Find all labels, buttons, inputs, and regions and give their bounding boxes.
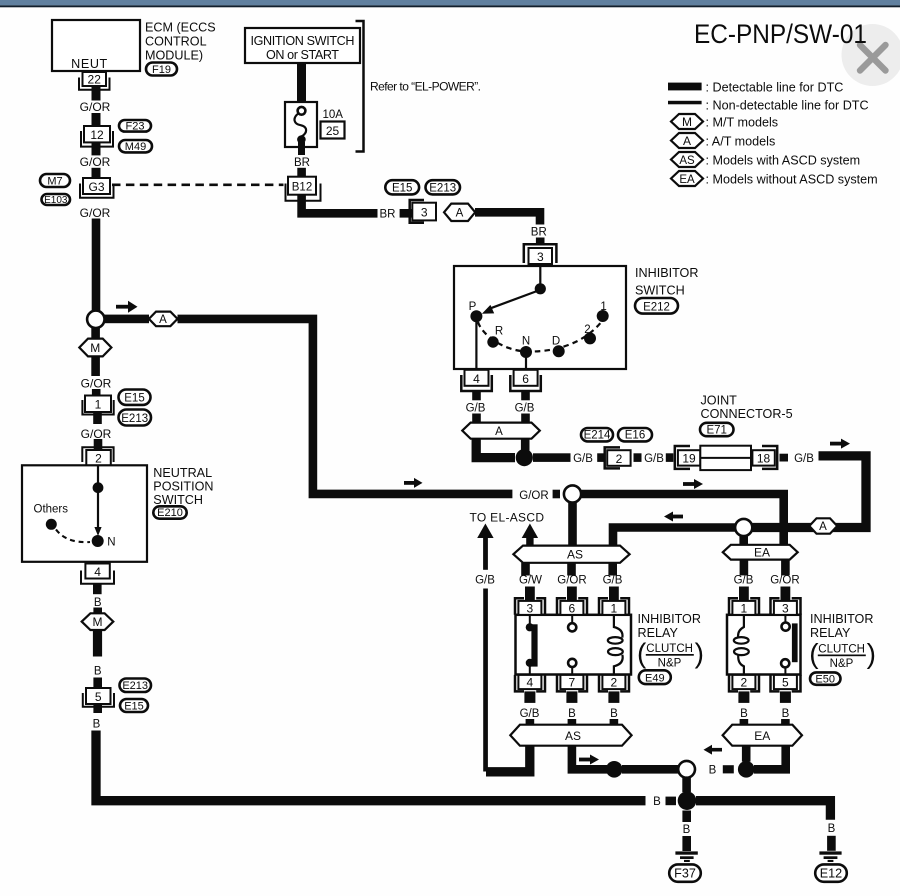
svg-text:BR: BR — [294, 157, 310, 169]
wire label G/OR — [81, 427, 112, 441]
wire EA lower-right down then left into dot — [754, 746, 786, 770]
junction dot G/B — [516, 449, 533, 466]
left relay contact switch — [526, 615, 538, 675]
right relay pin 1 — [729, 598, 759, 615]
svg-text:10A: 10A — [323, 109, 344, 121]
svg-text:NEUTRAL: NEUTRAL — [153, 466, 212, 480]
legend: EA hexagon — [671, 171, 878, 186]
svg-text:12: 12 — [90, 128, 104, 142]
left relay box E49 — [516, 615, 632, 675]
switch pin connector 6 — [510, 370, 541, 401]
legend: detectable line swatch — [668, 80, 843, 94]
svg-text:1: 1 — [741, 601, 748, 615]
svg-text:3: 3 — [537, 250, 544, 264]
wire node to A hexagon — [105, 315, 150, 324]
fuse 10A box — [285, 102, 317, 155]
wire N to pin 6 — [525, 356, 527, 370]
svg-text:A: A — [819, 521, 827, 533]
svg-text:EC-PNP/SW-01: EC-PNP/SW-01 — [694, 19, 867, 49]
svg-text:INHIBITOR: INHIBITOR — [638, 612, 701, 626]
svg-text:18: 18 — [757, 452, 771, 466]
wire ignition to fuse — [297, 63, 306, 103]
svg-text:ON or START: ON or START — [266, 48, 339, 62]
svg-text:6: 6 — [522, 372, 529, 386]
svg-text:N&P: N&P — [830, 658, 854, 670]
wire label BR — [294, 157, 310, 169]
switch position N — [520, 335, 532, 358]
svg-text:AS: AS — [565, 729, 581, 743]
AS bottom stubs — [521, 563, 617, 576]
flow arrow left — [664, 512, 683, 522]
wire stub — [297, 168, 306, 177]
window title bar — [0, 0, 900, 7]
ground oval E12 — [815, 864, 847, 881]
wire stub — [536, 238, 545, 245]
wire label B — [94, 597, 102, 609]
switch position 2 — [584, 324, 596, 345]
M/T hexagon below node — [79, 327, 111, 376]
svg-text:): ) — [695, 638, 704, 669]
wire label G/OR — [557, 575, 586, 587]
svg-text:A: A — [456, 208, 464, 220]
left relay pin 7 — [557, 675, 587, 703]
ground bus wire right then down to E12 — [696, 801, 830, 820]
inline connector G3 — [80, 178, 114, 198]
connector oval E50 — [810, 672, 841, 685]
wire label G/B — [475, 575, 495, 587]
wire P to pin 4 — [475, 320, 477, 370]
wire label G/B — [644, 453, 664, 465]
wire label G/OR — [80, 100, 111, 114]
wide A/T hexagon tag — [462, 423, 540, 439]
stubs into AS lower hexagon — [526, 719, 619, 726]
legend: AS hexagon — [671, 152, 860, 167]
right relay labels — [809, 612, 876, 670]
svg-text:25: 25 — [326, 124, 340, 138]
inline connector 5 — [83, 688, 114, 713]
right relay open contact with bar — [781, 615, 798, 675]
wire stub — [93, 678, 102, 689]
svg-text:M: M — [682, 115, 692, 129]
svg-text:5: 5 — [95, 690, 102, 704]
inline connector B12 — [286, 177, 321, 201]
wire dot to white node — [622, 765, 679, 774]
node junction circle — [87, 311, 104, 328]
svg-text:F19: F19 — [152, 64, 171, 76]
joint connector-5 label — [701, 393, 793, 421]
switch pin connector 4 — [461, 370, 492, 401]
svg-text:E213: E213 — [429, 182, 456, 194]
flow arrow right — [579, 755, 599, 765]
svg-text:G/OR: G/OR — [557, 575, 586, 587]
svg-text:B: B — [683, 824, 691, 836]
svg-text:E213: E213 — [122, 680, 148, 692]
ignition switch box — [245, 28, 360, 63]
wire stub — [553, 490, 560, 499]
svg-text:E12: E12 — [820, 867, 842, 881]
connector oval E214 — [581, 428, 613, 442]
svg-text:G/B: G/B — [603, 575, 623, 587]
wire stub — [93, 608, 102, 615]
wire stub — [780, 454, 789, 462]
thick wire node right then down to EA hexagon — [581, 494, 784, 546]
svg-text:E50: E50 — [815, 673, 835, 685]
svg-text:2: 2 — [611, 676, 618, 690]
svg-text:INHIBITOR: INHIBITOR — [635, 266, 698, 280]
wire junction to label — [533, 453, 571, 462]
switch position 1 — [597, 301, 609, 322]
svg-text:A: A — [159, 314, 167, 326]
svg-text:N: N — [522, 335, 530, 347]
svg-text:: Detectable line for DTC: : Detectable line for DTC — [706, 80, 844, 94]
ground symbol F37 — [675, 851, 697, 862]
connector oval E49 — [639, 670, 671, 684]
svg-text:Refer to “EL-POWER”.: Refer to “EL-POWER”. — [370, 80, 481, 94]
left relay pin 1 — [599, 598, 629, 615]
svg-text:22: 22 — [88, 73, 102, 87]
svg-text:G/B: G/B — [644, 453, 664, 465]
svg-text:A: A — [495, 426, 503, 438]
svg-text:3: 3 — [527, 601, 534, 615]
thick wire B12 down then right — [302, 195, 378, 214]
svg-text:7: 7 — [569, 676, 576, 690]
connector oval E212 — [635, 298, 678, 314]
ground symbol E12 — [819, 851, 841, 862]
svg-text:G3: G3 — [88, 180, 104, 194]
svg-text:1: 1 — [95, 398, 102, 412]
wire stub — [92, 168, 101, 179]
stubs into EA lower hexagon — [740, 719, 790, 726]
inhibitor switch pin connector 3 — [524, 244, 557, 264]
wire stub — [92, 389, 101, 397]
connector oval E213 upper — [426, 180, 461, 194]
wire label G/W — [519, 575, 542, 587]
svg-text:NEUT: NEUT — [71, 57, 108, 71]
NPS pin connector 4 — [81, 564, 114, 595]
svg-text:B12: B12 — [292, 182, 312, 194]
svg-text:: Non-detectable line for DTC: : Non-detectable line for DTC — [706, 99, 869, 113]
wire stub — [597, 453, 605, 462]
wire label G/B — [573, 453, 593, 465]
svg-text:G/OR: G/OR — [80, 155, 111, 169]
wire label BR — [380, 208, 396, 220]
svg-text:EA: EA — [679, 174, 695, 186]
white junction node G/OR — [564, 485, 581, 502]
connector oval E71 — [700, 423, 734, 437]
wire label G/OR — [770, 575, 799, 587]
wire label BR — [531, 226, 547, 238]
svg-text:M7: M7 — [47, 175, 62, 187]
svg-text:MODULE): MODULE) — [145, 49, 203, 63]
wire node down to EA hexagon — [739, 536, 748, 546]
svg-text:B: B — [94, 666, 102, 678]
right relay pin 5 — [771, 675, 801, 703]
white junction node B — [678, 761, 695, 778]
left relay pin 6 — [557, 598, 587, 615]
wire stub — [400, 209, 412, 218]
svg-text:B: B — [828, 823, 836, 835]
ground bus junction dot — [678, 791, 697, 810]
TO EL-ASCD label — [470, 510, 545, 524]
switch rotor arm with arrowhead toward P — [482, 291, 539, 314]
wire label B — [709, 765, 717, 777]
svg-text:2: 2 — [616, 452, 623, 466]
svg-text:E16: E16 — [625, 430, 645, 442]
svg-text:TO EL-ASCD: TO EL-ASCD — [470, 510, 545, 524]
svg-text:N&P: N&P — [658, 657, 682, 669]
svg-text:IGNITION SWITCH: IGNITION SWITCH — [251, 34, 355, 48]
flow arrow right on G/OR run — [404, 478, 423, 488]
switch position P — [469, 301, 483, 322]
svg-text:CONNECTOR-5: CONNECTOR-5 — [701, 407, 793, 421]
svg-text:): ) — [867, 638, 876, 669]
svg-text:ECM (ECCS: ECM (ECCS — [145, 21, 216, 35]
svg-text:E15: E15 — [124, 700, 144, 712]
inline connector 2 horizontal — [605, 447, 631, 468]
thick wire A hexagon right then down then right (G/OR run) — [178, 319, 513, 494]
left relay pin 3 — [515, 598, 545, 615]
svg-text:G/B: G/B — [573, 453, 593, 465]
svg-text:G/B: G/B — [734, 575, 754, 587]
connector oval F19 — [146, 63, 177, 77]
svg-text:SWITCH: SWITCH — [635, 283, 685, 297]
wire stub — [723, 765, 734, 773]
svg-text:CLUTCH: CLUTCH — [818, 644, 865, 656]
svg-text:19: 19 — [682, 452, 696, 466]
wire label B — [93, 719, 101, 731]
wire stub into connector 2 — [94, 439, 103, 451]
svg-text:B: B — [568, 708, 576, 720]
flow arrow right — [683, 479, 703, 489]
svg-text:R: R — [495, 325, 503, 337]
wire label G/OR — [80, 206, 111, 220]
thin wire G/B down to bottom run — [483, 589, 488, 772]
connector 2 into neutral position switch — [82, 447, 113, 465]
svg-text:JOINT: JOINT — [701, 393, 738, 407]
wire label B on ground bus — [653, 796, 661, 808]
AS hexagon upper — [513, 546, 629, 563]
wire label G/OR on main run — [519, 490, 548, 502]
close button — [842, 24, 900, 86]
svg-text:E213: E213 — [121, 413, 148, 425]
svg-text:E210: E210 — [157, 507, 183, 519]
svg-text:G/B: G/B — [520, 708, 540, 720]
wire label G/B — [734, 575, 754, 587]
right relay box E50 — [727, 615, 801, 675]
ground oval F37 — [669, 864, 701, 881]
flow arrow right — [116, 301, 138, 313]
svg-text:G/B: G/B — [515, 402, 535, 414]
svg-text:N: N — [107, 537, 115, 549]
left relay coil — [608, 615, 623, 675]
right relay pin 2 — [729, 675, 759, 703]
wire stub below ground bus dot — [682, 811, 691, 823]
wire pin6 branch into junction — [521, 439, 530, 451]
svg-text:4: 4 — [527, 676, 534, 690]
wire labels below right relay — [740, 708, 790, 720]
connector oval E103 — [42, 194, 71, 206]
svg-text:3: 3 — [782, 601, 789, 615]
svg-text:INHIBITOR: INHIBITOR — [810, 612, 873, 626]
svg-text:G/OR: G/OR — [519, 490, 548, 502]
junction dot B left — [606, 761, 623, 778]
arrow up to EL-ASCD right — [522, 524, 538, 546]
wire stub — [682, 836, 691, 851]
svg-text:G/B: G/B — [466, 402, 486, 414]
M/T hexagon lower — [82, 613, 114, 630]
svg-text:POSITION: POSITION — [153, 480, 213, 494]
EA bottom stubs — [740, 560, 790, 576]
switch position R — [487, 325, 503, 347]
svg-text:CONTROL: CONTROL — [145, 35, 207, 49]
wire EA lower-left into dot — [742, 746, 751, 762]
svg-text:AS: AS — [679, 155, 695, 167]
svg-text:F37: F37 — [674, 867, 696, 881]
wire labels below left relay — [520, 708, 618, 720]
dashed gate arc — [478, 321, 602, 352]
connector oval E213 — [119, 410, 152, 426]
ECM (ECCS CONTROL MODULE) box — [52, 20, 140, 71]
svg-text:4: 4 — [473, 372, 480, 386]
wire white node down to ground bus — [682, 778, 691, 793]
wire pin4 branch down then right to junction — [476, 439, 515, 458]
wire stub — [827, 836, 836, 851]
svg-text:E103: E103 — [44, 195, 68, 206]
neutral position switch box — [22, 465, 147, 562]
svg-text:G/OR: G/OR — [80, 206, 111, 220]
wire AS lower-left down and left to EL-ASCD riser — [486, 746, 530, 772]
inhibitor switch label — [635, 266, 698, 298]
svg-text:3: 3 — [421, 205, 428, 219]
NPS Others contact — [34, 504, 91, 543]
svg-text:BR: BR — [531, 226, 547, 238]
right relay pin 3 — [771, 598, 801, 615]
EA hexagon lower — [723, 725, 802, 746]
svg-text:B: B — [93, 719, 101, 731]
EA hexagon upper — [723, 545, 798, 560]
wire label G/OR — [81, 376, 112, 390]
wire G/OR down to node — [92, 219, 101, 312]
svg-text:6: 6 — [569, 601, 576, 615]
svg-text:E212: E212 — [643, 301, 670, 313]
wire stub — [666, 453, 674, 462]
svg-text:F23: F23 — [126, 120, 145, 132]
AS hexagon lower — [510, 725, 631, 746]
legend: A/T hexagon — [671, 133, 775, 148]
NPS internal wire with contact dot and arrow to N — [92, 466, 116, 549]
connector oval E210 — [153, 506, 186, 519]
svg-text:1: 1 — [611, 601, 618, 615]
svg-text:E214: E214 — [584, 430, 611, 442]
svg-text:EA: EA — [754, 729, 770, 743]
svg-text:B: B — [709, 765, 717, 777]
svg-text:G/OR: G/OR — [80, 100, 111, 114]
A/T hexagon tag on EA feed — [809, 518, 837, 533]
wire label B — [828, 823, 836, 835]
switch pivot wire — [539, 266, 541, 284]
A/T hexagon tag — [149, 312, 178, 327]
connector oval F23 — [119, 120, 151, 132]
wire label G/OR — [80, 155, 111, 169]
wire stub — [521, 414, 530, 424]
connector oval M7 — [40, 174, 70, 187]
thick wire below hexagon — [93, 630, 102, 657]
arrow up to EL-ASCD left — [477, 524, 493, 570]
refer bracket — [356, 21, 364, 152]
svg-text:G/OR: G/OR — [81, 427, 112, 441]
A/T hexagon tag on BR wire — [444, 204, 475, 221]
white junction node on EA feed — [735, 519, 752, 536]
wire label G/B — [603, 575, 623, 587]
wire label G/B — [515, 402, 535, 414]
wire label B — [94, 666, 102, 678]
svg-text:Others: Others — [34, 504, 69, 516]
wire white node to AS drop — [613, 528, 736, 546]
connector oval M49 — [119, 140, 152, 153]
svg-text:B: B — [610, 708, 618, 720]
svg-text:E15: E15 — [124, 392, 144, 404]
connector oval E15 — [119, 390, 151, 405]
switch position D — [552, 335, 565, 357]
connector oval E15 — [120, 699, 148, 712]
svg-text:B: B — [94, 597, 102, 609]
junction dot B right — [738, 761, 755, 778]
inhibitor switch box E212 — [454, 266, 626, 369]
dashed link wire G3 to B12 — [112, 184, 284, 187]
connector oval E15 upper — [385, 180, 419, 194]
svg-text:: M/T models: : M/T models — [706, 115, 779, 129]
svg-text:A: A — [683, 134, 691, 148]
svg-text:: A/T models: : A/T models — [706, 134, 776, 148]
inline connector 1 — [82, 396, 113, 425]
wire AS lower-mid down then right to junction — [572, 746, 607, 770]
svg-text:G/OR: G/OR — [81, 376, 112, 390]
NPS label text — [153, 466, 213, 507]
connector oval E213 — [120, 679, 152, 693]
svg-text:E49: E49 — [645, 672, 665, 684]
svg-text:G/OR: G/OR — [770, 575, 799, 587]
svg-text:: Models with ASCD system: : Models with ASCD system — [706, 153, 861, 167]
svg-text:M: M — [90, 341, 100, 355]
svg-text:EA: EA — [754, 545, 770, 559]
svg-text:BR: BR — [380, 208, 396, 220]
svg-text:G/B: G/B — [475, 575, 495, 587]
wire label B above F37 — [683, 824, 691, 836]
svg-text:G/W: G/W — [519, 575, 542, 587]
svg-text:B: B — [653, 796, 661, 808]
wire node down to AS hexagon — [568, 503, 577, 546]
svg-text:: Models without ASCD system: : Models without ASCD system — [706, 172, 878, 186]
svg-text:M: M — [93, 615, 103, 629]
svg-text:G/B: G/B — [794, 453, 814, 465]
wire stub — [472, 414, 481, 424]
wire label G/B — [794, 453, 814, 465]
inline connector 3 horizontal — [410, 200, 436, 223]
wire stub — [666, 797, 677, 806]
wire label G/B — [466, 402, 486, 414]
fuse number 25 box — [321, 122, 345, 139]
left relay open contact — [568, 615, 576, 675]
stubs into right relay pins — [739, 587, 790, 602]
legend: non-detectable line swatch — [668, 99, 869, 113]
flow arrow right — [830, 439, 850, 449]
svg-text:CLUTCH: CLUTCH — [646, 643, 693, 655]
fuse rating 10A — [323, 109, 344, 121]
svg-text:B: B — [740, 708, 748, 720]
wire stub — [634, 453, 642, 462]
svg-text:2: 2 — [741, 676, 748, 690]
thick ground bus wire down and right — [96, 731, 646, 801]
